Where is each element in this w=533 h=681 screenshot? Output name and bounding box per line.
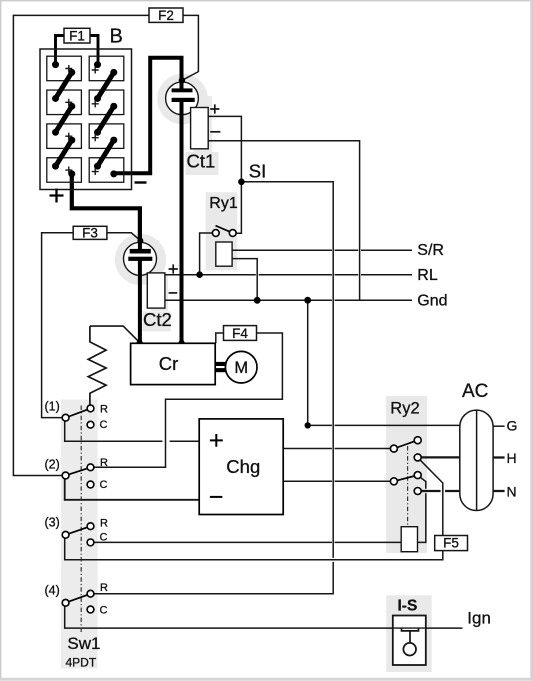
highlight shadow behind Ct1 shunt [194, 96, 212, 152]
wire: F4 right down and left to Sw1-2 R [94, 333, 282, 467]
wire: outlet stub H [493, 456, 505, 458]
fuse F4 box [224, 326, 257, 341]
svg-text:RL: RL [417, 267, 438, 284]
wire: fuse F1 right lead to battery [90, 36, 98, 65]
Chg minus mark [210, 496, 223, 498]
wire: Sw1-4 common down to Ign line through I-S [65, 606, 463, 628]
svg-text:Chg: Chg [226, 456, 260, 477]
svg-text:N: N [507, 483, 517, 499]
highlight ring behind contactor Ct2 [120, 239, 162, 281]
svg-text:B: B [110, 26, 123, 48]
svg-text:F4: F4 [232, 326, 248, 341]
svg-text:4PDT: 4PDT [66, 655, 97, 669]
node SI junction dot [238, 179, 245, 186]
svg-text:F2: F2 [158, 8, 174, 23]
battery cell plus marks [65, 65, 98, 175]
svg-text:C: C [100, 531, 108, 543]
svg-text:(4): (4) [45, 584, 60, 598]
relay Ry2 pole 1 [390, 437, 421, 461]
wire: resistor top link to Cr input node [90, 326, 139, 342]
Ct2 shunt box [147, 273, 165, 308]
Ct1 shunt box [191, 108, 209, 149]
wire: thick segment through Ct2 [138, 241, 142, 276]
svg-text:I-S: I-S [398, 597, 418, 614]
highlight box behind Ct2 label [143, 311, 171, 331]
wire: Ry1 coil to Gnd line [232, 259, 257, 301]
svg-text:H: H [507, 450, 517, 466]
fuse F2 box [149, 8, 183, 22]
battery minus label [135, 181, 147, 183]
svg-text:Gnd: Gnd [417, 292, 447, 309]
relay Ry2 coil [401, 527, 417, 552]
wire: Ry2 c6 to outlet N [421, 490, 460, 492]
contactor Cr box [131, 343, 216, 384]
svg-text:C: C [100, 605, 108, 617]
resistor R [88, 326, 106, 405]
battery terminal dots [52, 61, 117, 177]
battery cell 1 [47, 56, 82, 80]
wire: outlet stub N [493, 490, 505, 492]
svg-text:F5: F5 [443, 536, 459, 551]
svg-text:R: R [100, 403, 108, 415]
charger Chg box [199, 419, 283, 515]
wire: Gnd line from Ct2 minus to right labels [165, 299, 412, 301]
node: RL junction dot [196, 271, 203, 278]
highlight box behind I-S [386, 595, 432, 672]
relay Ry1 coil [216, 242, 232, 266]
wire: node SI long run right and down to Sw1-4 R [94, 182, 333, 594]
wire: Sw1-1 common down to Chg plus [65, 421, 200, 441]
Cr terminal flare right [178, 337, 186, 344]
svg-text:C: C [100, 419, 108, 431]
switch Sw1 mechanical dash-dot link [80, 406, 82, 633]
wire: Chg output to Ry2 pole2 common [283, 480, 390, 482]
wire: Ct1 plus terminal to node SI [208, 116, 241, 181]
switch Sw1 pole 3 [62, 523, 94, 546]
Cr terminal flare left [136, 337, 144, 344]
Ct2 plus mark [169, 264, 178, 273]
svg-text:Ry2: Ry2 [390, 400, 419, 418]
battery cell 7 [47, 158, 82, 183]
svg-text:G: G [507, 418, 518, 434]
svg-text:Cr: Cr [159, 353, 179, 374]
svg-text:R: R [100, 517, 108, 529]
motor M coupling bars [215, 362, 225, 366]
battery plus label [50, 189, 64, 203]
highlight strip behind relay Ry1 [206, 192, 238, 270]
svg-text:Ct2: Ct2 [143, 309, 172, 330]
svg-text:M: M [234, 359, 248, 377]
AC outlet center line [476, 410, 478, 510]
ignition switch I-S tap symbol [402, 628, 419, 643]
svg-text:Ct1: Ct1 [187, 151, 216, 172]
ignition switch I-S key circle [403, 643, 416, 656]
Ct2 minus mark [169, 292, 178, 294]
highlight strip behind relay Ry2 [386, 396, 427, 553]
battery cell 8 [89, 158, 124, 183]
switch Sw1 pole 2 [62, 464, 94, 488]
wire: G line from node to outlet [308, 424, 460, 426]
node: Gnd junction dot at outlet G branch [304, 297, 311, 304]
node: Ct1 top junction dot [179, 77, 185, 83]
wire: battery minus thick run up and over to Ct1 [114, 58, 182, 174]
wire: Ry1 NC contact down to RL line [200, 233, 213, 275]
battery B outer case [40, 49, 132, 190]
Ct1 minus mark [210, 131, 220, 133]
Ct1 plus mark [210, 104, 219, 113]
Chg plus mark [210, 434, 223, 447]
svg-text:(2): (2) [45, 458, 60, 472]
fuse F5 box [435, 536, 468, 551]
relay Ry1 blade [216, 226, 230, 232]
wire: F4 left lead to Cr [216, 333, 224, 343]
svg-text:(3): (3) [45, 515, 60, 529]
wire: thick segment through Ct1 [180, 78, 184, 116]
relay Ry1 contact right [229, 230, 236, 237]
highlight ring behind contactor Ct1 [162, 79, 203, 120]
wire: Ct1 node into top plate [180, 78, 184, 90]
wire: left rail from F2 left down to Sw1-2 common [13, 15, 149, 475]
wire: Ct2 bottom thick run down into Cr [138, 258, 142, 344]
contactor Ct2 plates [130, 249, 151, 254]
wire: S/R line from Ry1 coil to right labels [232, 249, 412, 251]
battery cell 2 [89, 56, 124, 80]
contactor Ct2 circle [124, 242, 157, 275]
highlight shadow behind Ct2 shunt [150, 274, 168, 311]
fuse F1 box [64, 28, 90, 43]
wire: Ry2 c5 down to coil right terminal [418, 477, 426, 542]
wire: F3 right to Ct2 node [107, 233, 141, 241]
wire: RL line from Ct2 plus to right labels [165, 274, 412, 276]
svg-text:Ry1: Ry1 [209, 195, 238, 212]
wire: Gnd junction down to outlet G node [307, 300, 309, 425]
battery cell 3 [47, 90, 82, 115]
ignition switch I-S box [393, 616, 426, 666]
node: Gnd junction dot at Ry1 coil [254, 297, 261, 304]
wire: battery plus thick run down to Ct2 [72, 174, 140, 250]
wire: Ct1 minus terminal to Gnd line [208, 141, 359, 300]
contactor Ct1 circle [166, 82, 199, 115]
svg-text:Sw1: Sw1 [67, 634, 100, 653]
svg-text:C: C [100, 479, 108, 491]
svg-text:R: R [100, 582, 108, 594]
wire: Ct1 bottom thick run down into Cr [180, 100, 184, 344]
svg-text:(1): (1) [45, 399, 60, 413]
contactor Ct1 plates [172, 88, 193, 92]
wire: Ry2 c3 to outlet H [421, 456, 460, 458]
relay Ry2 mechanical dash-dot link [407, 446, 409, 527]
node: G line corner dot [305, 422, 311, 428]
wire: Ry2 coil left terminal to Sw1-3 C [94, 541, 401, 543]
battery interconnect links [56, 72, 114, 166]
battery cell 4 [89, 90, 124, 115]
relay Ry1 contact left [212, 230, 219, 237]
svg-text:S/R: S/R [417, 242, 444, 259]
AC outlet body [460, 410, 493, 510]
relay Ry2 pole 2 [390, 472, 421, 495]
wire: Ign line across I-S box [393, 627, 426, 629]
battery cell 5 [47, 124, 82, 148]
svg-text:AC: AC [462, 381, 488, 402]
wire: Ry2 c3 diagonal down to F5 top [420, 460, 443, 535]
highlight strip behind switch Sw1 [61, 400, 98, 669]
switch Sw1 pole 4 [62, 590, 94, 613]
wire: Sw1-2 common down to Chg minus [65, 479, 200, 500]
highlight box behind Ct1 label [186, 152, 219, 175]
svg-text:Ign: Ign [467, 609, 491, 628]
svg-text:R: R [100, 457, 108, 469]
wire: Sw1-3 common down right and up to F5 bottom [65, 538, 443, 559]
battery cell 6 [89, 124, 124, 148]
wire: Chg output to Ry2 pole1 common [283, 448, 390, 450]
motor M circle [225, 351, 257, 383]
wire: fuse F1 left lead to battery [56, 36, 65, 65]
switch Sw1 pole 1 [62, 405, 94, 428]
svg-text:SI: SI [249, 161, 266, 182]
wire: F2 right to Ct1 top node [182, 15, 198, 80]
fuse F3 box [73, 226, 107, 239]
wire: F3 left down to Sw1-1 common [42, 233, 74, 418]
svg-text:F3: F3 [82, 226, 98, 241]
wire: node SI down to Ry1 NO contact [236, 182, 241, 233]
svg-text:F1: F1 [69, 29, 85, 44]
wire: outlet stub G [493, 425, 505, 427]
node: Ct2 top junction dot [137, 238, 143, 244]
